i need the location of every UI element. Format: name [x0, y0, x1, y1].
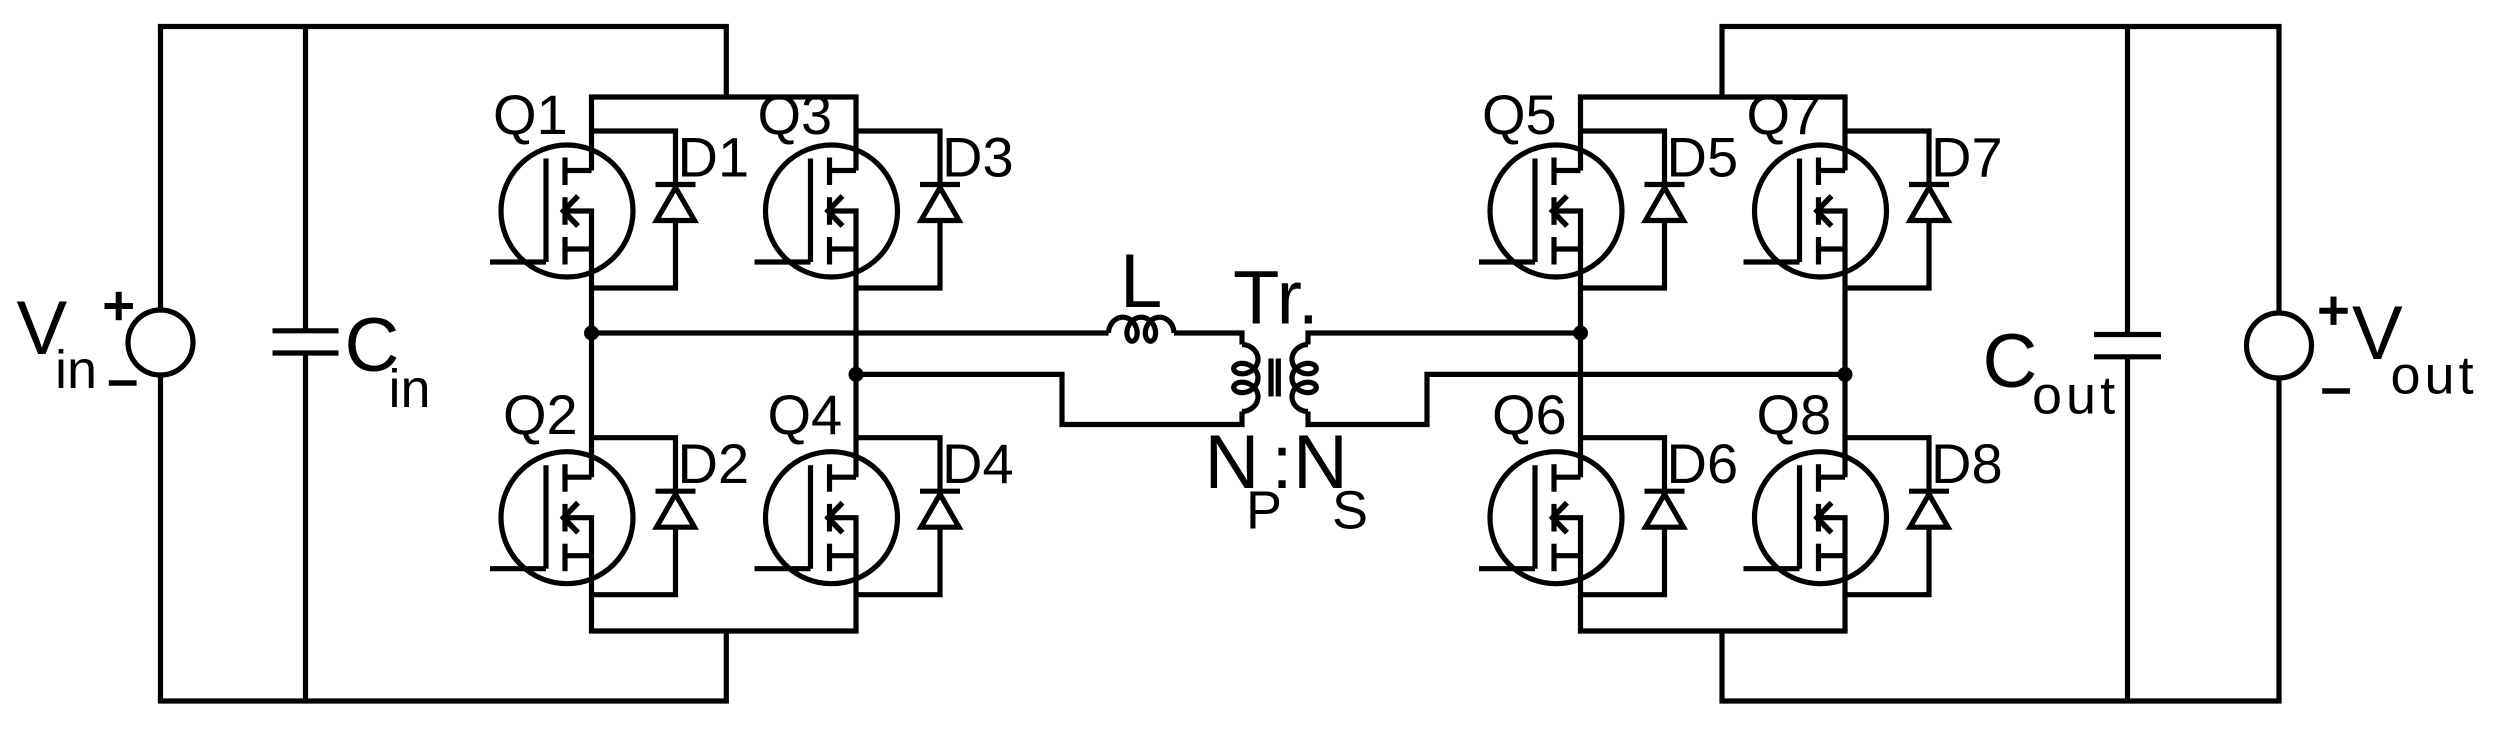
svg-text:Q4: Q4	[768, 383, 843, 446]
svg-text:D3: D3	[942, 126, 1014, 189]
diode D5 (body diode)	[1581, 131, 1685, 288]
diode D4 (body diode)	[856, 438, 960, 595]
wire phase A to inductor	[592, 330, 1109, 335]
wire Cin bottom lead	[303, 353, 308, 701]
transistor Q1 (N-MOSFET)	[490, 145, 633, 277]
wire phase B to transformer primary bottom	[856, 374, 1242, 424]
wire source lead bottom fet	[1842, 556, 1847, 631]
diode D7 (body diode)	[1845, 131, 1949, 288]
transformer Tr. secondary winding Ns	[1292, 345, 1316, 412]
wire drain lead top fet	[1578, 97, 1583, 171]
svg-text:in: in	[389, 359, 431, 419]
wire source lead bottom fet	[853, 556, 858, 631]
wire source lead bottom fet	[1578, 556, 1583, 631]
svg-text:Q1: Q1	[493, 83, 568, 146]
wire source/drain leg	[1578, 249, 1583, 477]
transformer Tr. primary winding Np	[1234, 345, 1258, 412]
wire Cout bottom lead	[2125, 357, 2130, 701]
svg-text:in: in	[55, 340, 97, 400]
svg-text:Q2: Q2	[503, 383, 578, 446]
transistor Q2 (N-MOSFET)	[490, 452, 633, 584]
label Cin	[345, 303, 431, 419]
node secondary top junction	[1573, 326, 1588, 341]
transistor Q7 (N-MOSFET)	[1744, 145, 1887, 277]
wire Vin bottom lead	[158, 375, 163, 701]
voltage source Vin	[105, 292, 194, 383]
svg-text:D2: D2	[678, 432, 750, 495]
svg-text:Q7: Q7	[1747, 83, 1822, 146]
svg-text:Q6: Q6	[1492, 383, 1567, 446]
diode D3 (body diode)	[856, 131, 960, 288]
transistor Q6 (N-MOSFET)	[1479, 452, 1622, 584]
node secondary bottom junction	[1838, 367, 1853, 382]
wire Cin top lead	[303, 27, 308, 331]
wire bridge bottom rail	[1578, 628, 1848, 633]
wire source lead bottom fet	[589, 556, 594, 631]
svg-text:D8: D8	[1931, 432, 2003, 495]
svg-text:Q3: Q3	[758, 83, 833, 146]
wire bridge bottom rail	[589, 628, 859, 633]
wire drain lead top fet	[1842, 97, 1847, 171]
svg-text:L: L	[1120, 239, 1162, 324]
svg-text:D1: D1	[678, 126, 750, 189]
wire inductor to transformer primary	[1174, 333, 1242, 345]
svg-text::: :	[1272, 420, 1293, 505]
wire Vin top lead	[158, 27, 163, 311]
diode D1 (body diode)	[592, 131, 696, 288]
svg-text:Tr.: Tr.	[1233, 256, 1319, 341]
diode D2 (body diode)	[592, 438, 696, 595]
wire secondary top to bridge	[1308, 333, 1581, 345]
capacitor Cin	[273, 331, 339, 353]
svg-text:D6: D6	[1667, 432, 1739, 495]
svg-text:out: out	[2032, 366, 2119, 426]
diode D6 (body diode)	[1581, 438, 1685, 595]
inductor L	[1109, 317, 1175, 341]
svg-text:D7: D7	[1931, 126, 2003, 189]
wire bottom left bus	[158, 631, 726, 701]
label Cout	[1983, 319, 2120, 426]
svg-text:C: C	[1983, 319, 2038, 404]
wire bottom right bus	[1722, 631, 2282, 701]
svg-text:Q5: Q5	[1482, 83, 1557, 146]
svg-text:D5: D5	[1667, 126, 1739, 189]
svg-text:Q8: Q8	[1757, 383, 1832, 446]
label Np:Ns turns ratio	[1205, 420, 1369, 541]
transistor Q8 (N-MOSFET)	[1744, 452, 1887, 584]
svg-text:S: S	[1332, 481, 1368, 541]
wire drain lead top fet	[853, 97, 858, 171]
capacitor Cout	[2094, 335, 2161, 357]
wire secondary bottom to bridge	[1308, 374, 1845, 424]
wire Cout top lead	[2125, 27, 2130, 335]
wire drain lead top fet	[589, 97, 594, 171]
transistor Q5 (N-MOSFET)	[1479, 145, 1622, 277]
wire source/drain leg	[853, 249, 858, 477]
node bridge B midpoint junction	[849, 367, 864, 382]
transistor Q3 (N-MOSFET)	[755, 145, 898, 277]
node bridge A midpoint junction	[584, 326, 599, 341]
wire bridge top rail	[589, 94, 859, 99]
wire bridge top rail	[1578, 94, 1848, 99]
wire top left bus	[158, 27, 726, 98]
wire top right bus	[1722, 27, 2282, 98]
transformer core	[1271, 359, 1278, 397]
diode D8 (body diode)	[1845, 438, 1949, 595]
svg-text:D4: D4	[942, 432, 1014, 495]
wire Vout top lead	[2276, 27, 2281, 314]
label Vout	[2352, 291, 2478, 406]
wire source/drain leg	[589, 249, 594, 477]
svg-text:out: out	[2391, 346, 2478, 406]
wire source/drain leg	[1842, 249, 1847, 477]
voltage source Vout	[2247, 297, 2350, 391]
wire Vout bottom lead	[2276, 378, 2281, 701]
label Vin	[17, 286, 98, 400]
transistor Q4 (N-MOSFET)	[755, 452, 898, 584]
